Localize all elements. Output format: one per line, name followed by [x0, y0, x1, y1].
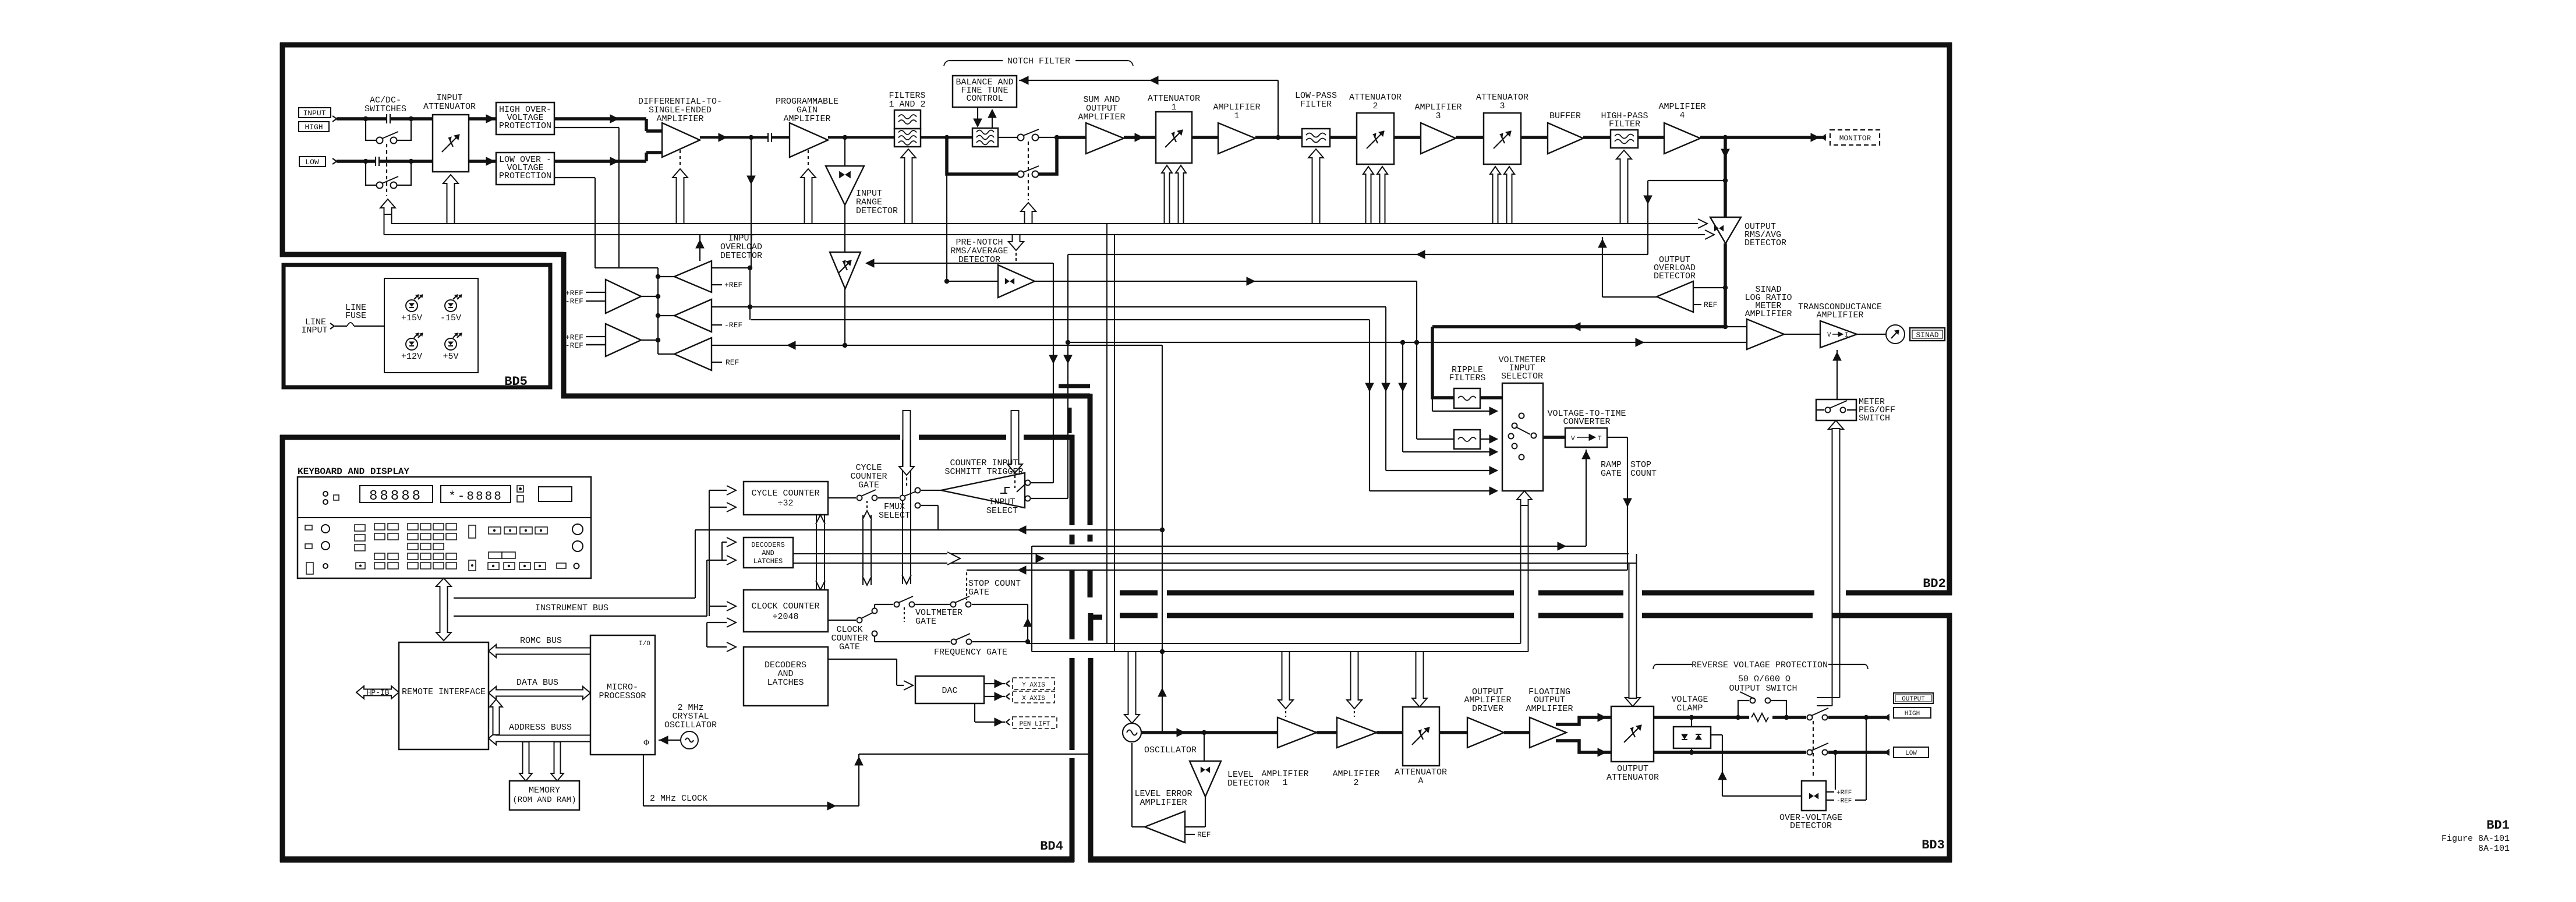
switch notch bypass lower [1018, 171, 1024, 178]
block high over-voltage protection [496, 102, 554, 135]
LED -15V [445, 300, 457, 312]
board BD4 left border [280, 435, 285, 862]
svg-text:1: 1 [1234, 111, 1239, 121]
wire HIGH OVP sense tap [554, 127, 619, 128]
board BD3 right border [1947, 613, 1952, 862]
svg-text:DETECTOR: DETECTOR [720, 251, 762, 261]
svg-text:FILTER: FILTER [1300, 100, 1332, 109]
wire output low line [1654, 751, 1806, 754]
block balance and fine tune control [953, 76, 1017, 107]
switch voltmeter gate [894, 602, 900, 607]
svg-text:AMPLIFIER: AMPLIFIER [1745, 309, 1792, 319]
svg-text:+REF: +REF [565, 289, 583, 298]
block attenuator A [1403, 707, 1439, 766]
detector output rms/avg [1710, 217, 1741, 243]
svg-text:KEYBOARD AND DISPLAY: KEYBOARD AND DISPLAY [298, 466, 409, 477]
svg-text:BD1: BD1 [2486, 818, 2510, 833]
wire HIGH input line [337, 117, 433, 121]
op-amp level error amplifier [1145, 811, 1185, 843]
label REVERSE VOLTAGE PROTECTION bracket [1653, 664, 1656, 669]
svg-text:Figure 8A-101: Figure 8A-101 [2441, 834, 2510, 844]
wire differential amp output [700, 136, 790, 139]
svg-text:(ROM AND RAM): (ROM AND RAM) [512, 795, 576, 805]
terminal X AXIS [1006, 694, 1010, 699]
wire filters to notch junction [921, 136, 972, 139]
svg-text:CLAMP: CLAMP [1676, 703, 1703, 713]
label REF output stub C [712, 362, 722, 363]
wire sum amp to attenuator 1 [1124, 136, 1156, 139]
block DAC [915, 676, 984, 703]
block input attenuator [433, 115, 469, 172]
wire oscillator to amplifier 1 BD3 [1141, 731, 1278, 734]
panel indicator circles [323, 491, 328, 496]
op-amp amplifier 3 [1421, 123, 1456, 154]
wire thick to sinad amplifier [1432, 325, 1725, 328]
bus decoder horizontal pair [793, 553, 1629, 554]
op-amp differential-to-single-ended [662, 123, 700, 157]
meter SINAD [1857, 334, 1886, 335]
capacitor on HIGH line [386, 114, 391, 123]
svg-text:NOTCH FILTER: NOTCH FILTER [1007, 56, 1070, 66]
svg-text:T: T [1598, 436, 1602, 443]
op-amp reference buffer upper [606, 280, 641, 313]
svg-text:AMPLIFIER: AMPLIFIER [1816, 310, 1863, 320]
wire LOW OVP to differential amplifier [554, 160, 646, 163]
wire voltmeter bus vertical C [1402, 342, 1403, 452]
control arrow low-pass filter [1308, 149, 1324, 224]
op-amp amplifier 1 BD3 [1278, 717, 1317, 748]
switch input select [1025, 480, 1031, 486]
label +REF output stub A [712, 284, 722, 285]
node balance feedback tap [1276, 135, 1280, 140]
svg-text:INPUT: INPUT [303, 109, 325, 118]
svg-text:AMPLIFIER: AMPLIFIER [1140, 798, 1187, 808]
svg-text:OUTPUT SWITCH: OUTPUT SWITCH [1729, 684, 1797, 694]
panel keyboard and display outline [298, 477, 591, 578]
board BD2 outline left border [280, 43, 285, 257]
dashed control link notch switches [1028, 142, 1029, 200]
svg-text:SINAD: SINAD [1916, 331, 1938, 339]
svg-text:AMPLIFIER: AMPLIFIER [656, 114, 703, 124]
svg-text:FILTERS: FILTERS [1449, 373, 1485, 383]
wire amp2 to attenuator A [1377, 731, 1403, 734]
svg-text:I: I [1845, 332, 1849, 339]
svg-text:DETECTOR: DETECTOR [1227, 779, 1269, 788]
dashed control link AC/DC switches [386, 144, 387, 196]
dashed over-voltage relay control [1813, 721, 1814, 778]
board BD4 right border [1070, 435, 1075, 525]
svg-text:LOW: LOW [305, 158, 319, 167]
svg-text:+12V: +12V [401, 352, 422, 362]
svg-text:DRIVER: DRIVER [1472, 704, 1503, 714]
control arrow differential amplifier [673, 169, 688, 224]
svg-text:CLOCK COUNTER: CLOCK COUNTER [751, 602, 819, 611]
wire clamp to over-voltage detector [1711, 734, 1722, 735]
block remote interface [399, 642, 489, 749]
svg-text:OUTPUT: OUTPUT [1902, 696, 1925, 703]
control arrow oscillator [1124, 652, 1140, 723]
svg-text:DATA BUS: DATA BUS [516, 678, 558, 688]
node voltage clamp low [1689, 750, 1694, 755]
wire stop count from converter [1607, 437, 1627, 438]
wire ripple filter 2 to selector [1480, 438, 1494, 440]
control arrow PGA [801, 169, 816, 224]
bus data to address link [490, 699, 503, 735]
wire overload A output [712, 267, 750, 268]
wire line L2 to overload C [712, 345, 1162, 346]
svg-text:+REF: +REF [565, 333, 583, 342]
svg-text:GATE: GATE [968, 588, 989, 597]
svg-text:CONVERTER: CONVERTER [1563, 417, 1610, 427]
wire pre-notch tap vertical [946, 174, 947, 281]
wire pen lift output [974, 703, 975, 722]
wire to stop count gate switch [915, 604, 950, 605]
display window right [441, 486, 511, 503]
wire range detector output [844, 205, 845, 252]
wire high sense to -REF [1855, 800, 1866, 801]
wire decoders lower output to DAC [828, 659, 897, 660]
board BD4 bottom border [280, 857, 1074, 863]
op-amp transconductance amplifier [1784, 334, 1820, 335]
block output attenuator [1611, 706, 1654, 762]
svg-text:-REF: -REF [1837, 798, 1852, 805]
wire amplifier 4 to monitor [1700, 136, 1826, 139]
wire pre-notch output [1035, 281, 1417, 282]
block decoders and latches upper [744, 537, 793, 568]
op-amp amplifier 1 [1218, 123, 1255, 154]
board BD2 annex left edge [561, 252, 567, 398]
display window left [360, 486, 433, 503]
terminal OUTPUT label [1894, 693, 1933, 703]
wire input overload detector to bus [699, 235, 700, 261]
wire ramp riser [1031, 546, 1032, 652]
control arrow high-pass filter [1616, 150, 1632, 224]
line fuse symbol and wire [335, 326, 347, 327]
node HIGH bypass right [409, 116, 413, 121]
label -REF over-voltage [1826, 800, 1834, 801]
wire monitor feedback from main line [1723, 178, 1728, 183]
svg-text:1: 1 [1282, 778, 1287, 788]
svg-text:+15V: +15V [401, 313, 422, 323]
svg-text:2: 2 [1353, 778, 1358, 788]
node leveling output junction [843, 343, 847, 348]
svg-text:GATE: GATE [858, 480, 879, 490]
svg-text:MONITOR: MONITOR [1839, 134, 1871, 143]
svg-text:COUNT: COUNT [1630, 469, 1657, 479]
wire selector control tails [1520, 505, 1521, 643]
wire floating amp low output [1556, 741, 1611, 752]
op-amp amplifier 4 [1664, 123, 1700, 154]
input LOW chevron [332, 158, 337, 164]
switch LOW AC/DC [377, 182, 383, 189]
bus HP-IB [356, 686, 399, 699]
svg-text:8A-101: 8A-101 [2478, 844, 2510, 854]
node resistor bypass left [1736, 715, 1740, 720]
control arrow amplifier 2 BD3 [1347, 652, 1362, 709]
wire oscillator feedback vertical [1162, 345, 1163, 733]
bus address to memory right [551, 742, 564, 781]
svg-text:ATTENUATOR: ATTENUATOR [1607, 773, 1659, 783]
dashed link pre-notch [1015, 253, 1017, 264]
input HIGH chevron [332, 116, 337, 122]
wire level error to oscillator [1132, 826, 1145, 827]
LED +15V [406, 300, 417, 312]
switch output low series [1807, 750, 1813, 755]
svg-text:BD2: BD2 [1923, 576, 1946, 591]
bus vertical hollow 3 [902, 440, 903, 584]
label REF level error [1185, 834, 1195, 835]
wire thick corner to ripple filter [1432, 327, 1454, 398]
svg-text:3: 3 [1435, 111, 1441, 121]
wire selector control pair to gates [1028, 643, 1521, 644]
bus keyboard to instrument bus [436, 578, 451, 641]
panel blank window [539, 487, 572, 501]
control arrow AC/DC switches [380, 199, 395, 214]
switch output high series [1807, 715, 1813, 720]
control arrows attenuator 1 [1162, 165, 1172, 224]
block attenuator 1 [1156, 112, 1192, 163]
svg-text:PROCESSOR: PROCESSOR [599, 691, 646, 701]
wire counter input select A vertical [1053, 263, 1054, 483]
svg-text:÷2048: ÷2048 [772, 612, 798, 622]
svg-text:CYCLE COUNTER: CYCLE COUNTER [751, 489, 819, 498]
wire stop count return to BD4 [967, 570, 1627, 571]
svg-text:-REF: -REF [724, 321, 742, 330]
svg-text:SWITCH: SWITCH [1859, 413, 1890, 423]
svg-text:PEN LIFT: PEN LIFT [1020, 721, 1050, 728]
wire meter peg control tails [1832, 429, 1833, 706]
svg-text:GATE: GATE [839, 642, 860, 652]
svg-text:CONTROL: CONTROL [966, 94, 1003, 104]
filter block ripple filter 2 [1454, 430, 1480, 449]
svg-text:OSCILLATOR: OSCILLATOR [664, 720, 717, 730]
terminal SINAD [1910, 328, 1945, 341]
terminal PEN LIFT [1006, 719, 1010, 725]
wire clock counter gate output [828, 620, 856, 621]
filter block filters 1 and 2 upper [894, 110, 921, 129]
board BD2 right border [1947, 43, 1952, 595]
svg-text:2: 2 [1372, 101, 1378, 111]
wire leveling attenuator output [844, 289, 845, 345]
wire overload B output line L1 [712, 306, 1386, 307]
filter block ripple filter 1 [1454, 388, 1480, 408]
svg-text:SELECT: SELECT [879, 511, 910, 521]
comparator output overload detector [1693, 287, 1725, 288]
svg-text:ROMC BUS: ROMC BUS [520, 636, 562, 646]
svg-text:4: 4 [1679, 111, 1685, 121]
node level detector tap [1202, 730, 1206, 735]
svg-text:X AXIS: X AXIS [1022, 695, 1045, 702]
svg-text:FUSE: FUSE [345, 311, 366, 321]
wire floating amp high output [1556, 717, 1611, 724]
svg-text:V: V [1827, 332, 1831, 339]
node input range detector tap [843, 135, 847, 140]
wire monitor signal line y588 [1068, 342, 1747, 343]
dashed cycle counter gate [866, 501, 868, 508]
svg-text:ATTENUATOR: ATTENUATOR [423, 102, 476, 112]
terminal LOW output [1885, 749, 1889, 755]
wire low to output terminal [1828, 751, 1889, 754]
node HIGH bypass left [363, 116, 368, 121]
control arrow notch switches [1021, 203, 1036, 224]
wire notch to sum amplifier [1057, 136, 1086, 139]
block decoders and latches lower [744, 647, 828, 706]
wire input select upper line [1031, 482, 1053, 483]
svg-text:REMOTE INTERFACE: REMOTE INTERFACE [402, 687, 486, 697]
wire voltmeter bus vertical B [1385, 307, 1386, 471]
wire input select lower line [1031, 498, 1068, 499]
control bus open arrow into output rms/avg detector lower [1705, 230, 1714, 239]
block voltage clamp [1691, 717, 1692, 727]
svg-text:SCHMITT TRIGGER: SCHMITT TRIGGER [944, 467, 1023, 477]
svg-text:LOW: LOW [1905, 750, 1917, 757]
svg-text:I/O: I/O [639, 641, 650, 648]
svg-text:PROTECTION: PROTECTION [499, 171, 551, 181]
wire attenuator 3 to buffer [1521, 136, 1548, 139]
svg-text:GATE: GATE [915, 617, 936, 627]
svg-text:MEMORY: MEMORY [529, 786, 560, 795]
filter block filters 1 and 2 lower [894, 129, 921, 147]
dashed gain control differential amplifier [680, 150, 681, 167]
wire low sense to +REF [1835, 752, 1836, 790]
wire ramp gate horizontal [1032, 546, 1586, 547]
wire high-pass to amplifier 4 [1638, 136, 1664, 139]
svg-text:AMPLIFIER: AMPLIFIER [1078, 112, 1125, 122]
wire reference line y549 [751, 319, 1370, 320]
wire output high line [1654, 716, 1749, 719]
switch cycle counter gate [828, 497, 856, 498]
svg-text:FREQUENCY GATE: FREQUENCY GATE [934, 648, 1007, 657]
op-amp output amplifier driver [1467, 717, 1504, 748]
node LOW bypass right [409, 159, 413, 164]
node after differential amp [749, 135, 753, 140]
svg-text:SELECTOR: SELECTOR [1501, 372, 1543, 381]
block microprocessor [590, 635, 655, 755]
control bus corner at AC/DC arrow [384, 214, 385, 235]
svg-text:+5V: +5V [443, 352, 458, 362]
block clock counter [744, 590, 828, 632]
filter block high-pass filter [1611, 130, 1638, 148]
wire balance control up arrow [992, 112, 993, 128]
switch HIGH AC/DC [377, 137, 383, 144]
control bus lower line [384, 234, 1711, 235]
svg-text:-REF: -REF [565, 341, 583, 350]
switch stop count gate [951, 602, 956, 607]
svg-text:2 MHz CLOCK: 2 MHz CLOCK [650, 794, 707, 804]
svg-text:BD5: BD5 [504, 374, 528, 389]
control arrow attenuator A [1412, 652, 1427, 707]
terminal HIGH [299, 122, 329, 132]
zipper tooth vertical [1068, 408, 1072, 433]
control arrow into pre-notch detector [1009, 235, 1024, 250]
svg-text:AMPLIFIER: AMPLIFIER [1526, 704, 1573, 714]
svg-text:HIGH: HIGH [1905, 710, 1920, 717]
dashed gain control PGA [808, 150, 809, 167]
control arrow output attenuator [1625, 698, 1640, 706]
wire instrument bus upper [454, 597, 695, 599]
svg-text:HIGH: HIGH [305, 123, 323, 132]
wire DAC x axis output [984, 696, 1005, 697]
svg-text:FILTER: FILTER [1609, 119, 1640, 129]
control bus upper line [391, 223, 1704, 224]
wire attenuator 2 to amplifier 3 [1394, 136, 1421, 139]
wire LOW bypass loop [366, 161, 377, 185]
svg-text:DECODERS: DECODERS [751, 541, 785, 549]
op-amp programmable gain amplifier [790, 123, 828, 157]
bus vertical hollow 2 [862, 515, 864, 585]
svg-text:88888: 88888 [369, 489, 423, 504]
selector contacts [1519, 413, 1524, 419]
svg-text:SWITCHES: SWITCHES [365, 104, 406, 114]
svg-text:Φ: Φ [643, 738, 649, 748]
filter block low-pass filter [1302, 129, 1330, 147]
svg-text:LATCHES: LATCHES [753, 557, 783, 565]
control arrow input attenuator [443, 175, 458, 224]
filter block notch filter [972, 128, 998, 147]
svg-text:REF: REF [1197, 830, 1211, 839]
wire rms/avg output thick [1724, 243, 1727, 327]
wire attenuator 1 to amplifier 1 [1192, 136, 1218, 139]
svg-text:REF: REF [1704, 300, 1717, 309]
bus vertical hollow 1 [816, 515, 817, 590]
control arrows attenuator 3 [1490, 167, 1501, 224]
op-amp sum and output amplifier [1086, 123, 1124, 154]
wire ramp gate into converter [1586, 450, 1587, 546]
comparator input overload C [674, 338, 712, 370]
block meter peg/off switch [1816, 399, 1856, 420]
label NOTCH FILTER bracket [949, 60, 1003, 61]
op-amp counter input schmitt trigger [921, 490, 941, 491]
wire voltmeter bus vertical A [1369, 320, 1370, 491]
oscillator 2MHz crystal [681, 731, 698, 749]
svg-text:DETECTOR: DETECTOR [1745, 238, 1786, 248]
node voltage clamp high [1689, 715, 1694, 720]
panel display divider [298, 517, 591, 518]
board BD2 annex bottom edge [561, 394, 1090, 399]
svg-text:PROTECTION: PROTECTION [499, 121, 551, 131]
svg-text:BD4: BD4 [1040, 839, 1063, 854]
control arrow filters 1 and 2 [901, 149, 916, 224]
node LOW bypass left [363, 159, 368, 164]
wire stop count gate to ramp vertical [972, 604, 1028, 605]
terminal Y AXIS [1006, 681, 1010, 687]
wire frequency gate line [874, 636, 875, 642]
svg-text:REVERSE VOLTAGE PROTECTION: REVERSE VOLTAGE PROTECTION [1692, 660, 1828, 670]
comparator input overload B [674, 299, 712, 332]
wire attenuator A to driver [1439, 731, 1467, 734]
control arrow voltmeter selector [1517, 491, 1532, 505]
svg-text:BD3: BD3 [1922, 838, 1945, 853]
svg-text:OSCILLATOR: OSCILLATOR [1144, 745, 1197, 755]
control arrow into leveling attenuator [869, 263, 1053, 264]
wire selector input 2 [1432, 398, 1433, 411]
board BD5 outline [284, 265, 550, 387]
wire meter peg switch to transconductance [1837, 350, 1838, 399]
node monitor junction [1723, 135, 1728, 140]
wire output attenuator control tails [1629, 563, 1630, 698]
label REF output overload [1693, 304, 1701, 305]
wire HIGH OVP to differential amplifier [554, 117, 646, 121]
wire LOW input line [337, 160, 433, 163]
wire overload detector branch [751, 137, 752, 185]
panel small squares [517, 486, 523, 492]
svg-text:LATCHES: LATCHES [767, 678, 804, 688]
LED +5V [445, 338, 457, 350]
wire notch bypass return [1039, 137, 1057, 174]
svg-text:1 AND 2: 1 AND 2 [889, 100, 925, 109]
block attenuator 3 [1484, 113, 1521, 164]
wire HIGH bypass loop [366, 119, 377, 140]
